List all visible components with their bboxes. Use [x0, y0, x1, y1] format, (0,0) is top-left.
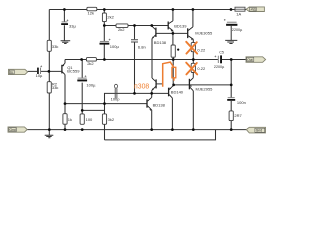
wire MJE2955 base line: [174, 84, 232, 86]
wire +Vs top rail: [49, 9, 246, 11]
svg-text:10µ: 10µ: [36, 73, 43, 78]
port Gnd right: [246, 127, 265, 133]
wire output emitter node: [192, 52, 194, 64]
svg-text:100µ: 100µ: [86, 82, 96, 87]
svg-text:2k2: 2k2: [107, 14, 114, 19]
svg-text:MJE3055: MJE3055: [195, 31, 213, 36]
wire MJE2955 to ground: [192, 91, 194, 130]
capacitor 2200u supply: [224, 19, 238, 26]
port +Vs: [246, 7, 264, 12]
resistor 2k2 gain: [86, 58, 96, 62]
wire 1k column: [64, 104, 66, 130]
wire 33u decoupling column: [63, 10, 65, 41]
capacitor 10u input: [37, 65, 42, 74]
port In: [9, 69, 28, 74]
transistor BD138 lower: [147, 97, 152, 111]
svg-text:100p: 100p: [111, 97, 121, 102]
svg-text:Gnd: Gnd: [256, 129, 262, 133]
transistor Q1 BC559: [62, 63, 65, 74]
svg-text:Gnd: Gnd: [10, 128, 16, 132]
svg-text:33µ: 33µ: [69, 24, 76, 29]
svg-text:100µ: 100µ: [110, 44, 120, 49]
svg-text:BD139: BD139: [174, 23, 187, 28]
transistor MJE3055: [188, 27, 194, 41]
resistor 0.22 bottom: [191, 63, 195, 72]
wire MJE2955 collector: [192, 73, 194, 78]
resistor 100 feedback: [80, 114, 84, 124]
wire 100u fb column: [81, 60, 83, 114]
transistor vas (п308 annotated): [152, 78, 163, 93]
capacitor 100p: [114, 84, 117, 98]
resistor bias trimmer body: [171, 45, 175, 57]
transistor BD138 driver: [152, 26, 156, 38]
wire ground rail: [27, 129, 246, 131]
svg-text:33k: 33k: [52, 44, 58, 49]
svg-text:2200µ: 2200µ: [232, 28, 243, 32]
fuse 1A: [235, 7, 245, 11]
resistor 0.22 top: [191, 43, 195, 52]
svg-text:In: In: [10, 70, 13, 74]
wire 6.8n column: [134, 26, 136, 94]
resistor 12k: [47, 7, 233, 124]
capacitor C5 2200u output: [215, 55, 223, 63]
annotation X over MJE2955 path: [186, 63, 197, 75]
wire zobel column: [230, 60, 232, 130]
svg-text:12k: 12k: [88, 11, 94, 16]
svg-text:BD138: BD138: [154, 40, 167, 45]
capacitor 6.8n: [131, 40, 138, 42]
wire MJE3055 collector: [192, 10, 194, 27]
capacitor 100u vas: [100, 39, 111, 45]
wire BD139 collector to rail: [172, 10, 174, 21]
resistor R2 33k: [47, 82, 51, 93]
ground symbol decoupling: [61, 41, 71, 44]
svg-text:2k2: 2k2: [87, 61, 94, 66]
resistor 2R7 zobel: [229, 111, 233, 121]
ground symbol input: [45, 130, 54, 138]
annotation orange resistor mod: [163, 62, 176, 87]
wire fb shunt link: [82, 109, 104, 111]
wire 2k2/100u column: [103, 10, 105, 60]
wire BD140 collector: [171, 98, 173, 130]
wire lower BD138 emitter: [151, 110, 153, 130]
wire bias resistor bottom: [172, 57, 174, 85]
transistor BD139: [168, 21, 173, 32]
port Out: [246, 57, 266, 63]
wire feedback detour: [105, 130, 216, 140]
svg-text:1k: 1k: [68, 117, 72, 122]
wire input bias column: [48, 10, 50, 130]
svg-text:2k2: 2k2: [118, 27, 125, 32]
svg-text:MJE2955: MJE2955: [196, 86, 214, 91]
wire BD138 emitter long: [151, 39, 153, 78]
svg-text:1A: 1A: [236, 11, 241, 16]
wire output rail: [65, 59, 246, 61]
resistor 3k2 feedback: [102, 114, 106, 124]
svg-text:0.22: 0.22: [197, 47, 206, 52]
svg-text:2R7: 2R7: [234, 113, 242, 118]
svg-text:100n: 100n: [237, 100, 246, 105]
wire BD139 emitter column: [172, 31, 174, 45]
svg-text:6.8n: 6.8n: [138, 44, 146, 49]
transistor BD140: [169, 85, 174, 98]
wire MJE3055 emitter: [192, 39, 194, 42]
resistor 1k feedback: [63, 114, 67, 125]
wire driver base line: [157, 32, 188, 34]
wire lower BD138 collector: [151, 93, 153, 97]
svg-text:33k: 33k: [52, 85, 58, 90]
port Gnd left: [8, 127, 27, 132]
svg-text:п308: п308: [134, 84, 149, 91]
annotation X over MJE3055 path: [186, 42, 197, 75]
value labels: [36, 11, 246, 123]
wire mid rail VAS base: [104, 25, 168, 27]
capacitor 100n zobel: [227, 98, 235, 101]
svg-text:BD140: BD140: [171, 89, 184, 94]
resistor 2k2 vas: [116, 24, 128, 28]
capacitor 33u: [61, 19, 68, 25]
wire input signal: [28, 70, 62, 72]
wire feedback rail: [65, 103, 147, 105]
svg-text:C5: C5: [219, 50, 224, 54]
svg-text:BD138: BD138: [153, 103, 166, 108]
svg-text:0.22: 0.22: [197, 66, 206, 71]
wire Q1 emitter: [64, 60, 66, 64]
wire 3k2 column: [104, 104, 106, 140]
svg-text:BC559: BC559: [67, 69, 80, 74]
svg-text:+Vs: +Vs: [250, 7, 256, 11]
transistor MJE2955: [189, 78, 193, 91]
capacitor 100u feedback: [77, 75, 87, 81]
wire lower base line: [105, 93, 169, 103]
svg-text:100: 100: [86, 117, 93, 122]
ground symbol supply cap: [225, 26, 237, 44]
wire Q1 collector: [64, 75, 66, 104]
svg-text:Out: Out: [247, 58, 252, 62]
resistor 2k2 bias upper: [102, 13, 106, 22]
resistor 33k bias: [47, 40, 51, 51]
svg-text:2200µ: 2200µ: [214, 65, 225, 69]
svg-text:3k2: 3k2: [108, 117, 115, 122]
node annotation dot: [177, 49, 179, 51]
